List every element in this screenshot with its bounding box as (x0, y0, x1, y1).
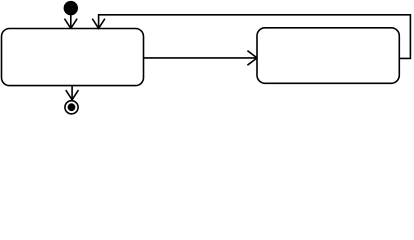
wire: initial state to state S1 (70, 14, 72, 28)
arrowhead into final state top (66, 90, 79, 100)
state S2 (right rounded rectangle) (257, 28, 399, 84)
arrowhead into state S2 left edge (247, 51, 257, 66)
arrowhead into state S1 top (from feedback loop) (92, 19, 105, 29)
initial state (filled circle) (64, 1, 78, 15)
final state outer ring (65, 101, 78, 114)
state S1 (left rounded rectangle) (2, 29, 144, 86)
arrowhead into state S1 top (from initial) (65, 19, 78, 29)
wire: transition S1 to S2 (144, 57, 257, 59)
wire: S1 bottom to final state (71, 86, 73, 100)
final state inner dot (68, 103, 76, 111)
wire: feedback loop S2 right edge, up, across top, down to S1 top (99, 15, 411, 59)
